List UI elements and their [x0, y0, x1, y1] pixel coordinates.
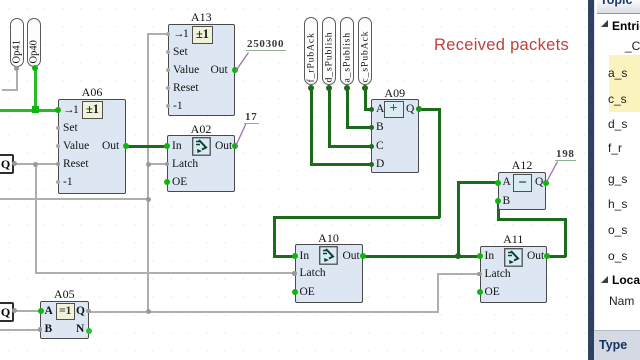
wire pill f_rPubAck to A09.D [310, 88, 313, 164]
wire A10.Out to A11.In [362, 255, 480, 258]
function block A06 (counter) [58, 85, 126, 100]
dark green dot below pill c_sPubAck [362, 85, 368, 91]
tree item f_r [608, 141, 622, 155]
green dot A02.In [164, 143, 170, 149]
wire pill d_sPublish to A09.C [328, 88, 331, 146]
grey dot below Op41 [14, 66, 19, 71]
pin N of A05 [76, 324, 84, 336]
wire A05.Q right, up at x=437, into A11.Latch [88, 311, 438, 313]
plus icon of A09 [384, 101, 404, 119]
junction dot dark green A10.Out net [455, 253, 462, 260]
grey dot A10.Latch [292, 271, 297, 276]
pin Latch of A10 [300, 268, 326, 280]
function block A11 (latch) [480, 232, 548, 247]
green dot A11.In [477, 253, 483, 259]
wire A09.Q routed right, down, left, down into A10.In [418, 108, 440, 111]
tree item _C [625, 39, 640, 53]
green junction square on bus [32, 106, 39, 113]
green dot A13.Out [232, 67, 238, 73]
tree item c_s [608, 92, 627, 106]
green dot A12.Q [543, 180, 549, 186]
pin -1 of A13 [173, 101, 183, 113]
wire net from A05.Q up via x=148: into A13 +1 and A02.Latch [148, 33, 168, 35]
grey dot A06.Reset [56, 162, 60, 166]
junction dot A06.Reset net [33, 162, 38, 167]
icon plus/minus 1 of A06 [82, 101, 103, 119]
pin Out of A11 [527, 251, 544, 263]
connector pill Op40 [27, 18, 41, 67]
latch icon of A10 [319, 246, 338, 265]
wire A06.Out to A02.In [126, 145, 167, 148]
function block A12 (subtract) [498, 158, 546, 173]
junction dot x148 y311 [146, 309, 151, 314]
annotation Received packets [434, 36, 569, 55]
connector pill Op41 [10, 18, 24, 67]
pin C of A09 [376, 141, 384, 153]
pin Set of A06 [63, 123, 78, 135]
pin Out of A13 [211, 65, 228, 77]
window splitter navy strip [588, 0, 594, 360]
green dot A02.OE [164, 179, 170, 185]
grey unconnected pin dots of A13 [166, 32, 170, 36]
wire branch up from junction to A12.A [457, 182, 460, 258]
connector pill a_sPublish [340, 17, 355, 85]
pin Reset of A13 [173, 83, 199, 95]
dark green dot below pill d_sPublish [326, 85, 332, 91]
wire connector Q (bottom) to A05.A [14, 310, 40, 312]
junction dot x148 Latch [146, 162, 151, 167]
xor =1 icon of A05 [56, 303, 76, 320]
green dot A10.OE [292, 289, 298, 295]
pin Set of A13 [173, 47, 188, 59]
wire left edge to A05.B [0, 329, 40, 331]
pin 1 of A13 [173, 29, 189, 41]
wire long horizontal from left edge at y=199 to x=148 vertical [0, 198, 149, 200]
wire pill c_sPubAck to A09.A [364, 88, 367, 109]
tree item o_s [608, 223, 627, 237]
function block A02 (latch) [167, 122, 235, 137]
pin A of A12 [503, 177, 511, 189]
pin OE of A02 [172, 177, 187, 189]
grey dot A11.Latch [477, 272, 482, 277]
pin OE of A10 [300, 287, 315, 299]
connector pill c_sPubAck [358, 17, 373, 85]
tree item a_s [608, 66, 627, 80]
grey dot A05.Q [86, 309, 91, 314]
pin D of A09 [376, 159, 384, 171]
pin B of A05 [45, 324, 53, 336]
green dot below Op40 [32, 65, 38, 71]
pin Out of A02 [215, 141, 232, 153]
dark green dot below pill f_rPubAck [308, 85, 314, 91]
pin OE of A11 [485, 287, 500, 299]
pin In of A10 [300, 251, 310, 263]
pin Value of A06 [63, 141, 89, 153]
green dot A10.In [292, 253, 298, 259]
pin Out of A06 [102, 141, 119, 153]
pin B of A09 [376, 122, 384, 134]
pin Latch of A02 [172, 159, 198, 171]
panel column header Topic (clipped at top) [597, 0, 640, 14]
pin Q of A09 [406, 104, 414, 116]
icon plus/minus 1 of A13 [192, 26, 213, 44]
dark green input dots of A09 [369, 107, 374, 112]
wire bright green bus from left edge to A06 +1 [0, 109, 58, 112]
function block A10 (latch) [295, 231, 363, 246]
connector pill d_sPublish [322, 17, 337, 85]
green dot A02.Out [232, 143, 238, 149]
connector pill f_rPubAck [304, 17, 319, 85]
pin 1 of A06 [63, 105, 79, 117]
grey dot A02.Latch [165, 162, 170, 167]
panel section header Type [594, 330, 640, 360]
junction dot x148 y199 [146, 197, 151, 202]
watch value 17 at A02.Out [244, 111, 259, 124]
pin In of A02 [172, 141, 182, 153]
pin In of A11 [485, 251, 495, 263]
watch value 250300 at A13.Out [246, 38, 286, 51]
wire connector Q (top) to A06.Reset [14, 163, 59, 165]
tree group Entries [601, 20, 608, 27]
tree item Name [609, 294, 634, 308]
minus icon of A12 [513, 174, 532, 192]
green dot A06.+1 [55, 107, 61, 113]
dark green dot below pill a_sPublish [344, 85, 350, 91]
pin -1 of A06 [63, 177, 73, 189]
watch value 198 at A12.Q [555, 148, 577, 161]
pin A of A05 [45, 306, 53, 318]
grey dot at Q box output [12, 161, 17, 166]
grey dot A05.B [38, 327, 43, 332]
wire Op40 TRUE (bright green) down to bus [34, 68, 37, 111]
green dot A12.B [495, 198, 501, 204]
function block A09 (adder) [371, 86, 419, 101]
yellow highlight over selected entries [609, 55, 640, 112]
pin Q of A05 [76, 306, 85, 318]
green dot A09.Q [416, 106, 422, 112]
pin Out of A10 [343, 251, 360, 263]
tree item d_s [608, 117, 627, 131]
grey dot at bottom Q box output [12, 308, 17, 313]
wire A11.Out to A12.B (right, up, left, up) [547, 255, 566, 258]
tree item g_s [608, 172, 627, 186]
green dot A06.Out [123, 143, 129, 149]
pin Value of A13 [173, 65, 199, 77]
wire pill a_sPublish to A09.B [346, 88, 349, 126]
connector end-box Q (bottom left) [0, 302, 14, 322]
pin B of A12 [503, 196, 511, 208]
wire junction at x=35 down to A10.Latch row [35, 164, 37, 273]
green dot A10.Out [360, 253, 366, 259]
pin Reset of A06 [63, 159, 89, 171]
pin Q of A12 [535, 177, 543, 189]
tree item o_s [608, 249, 627, 263]
function block A13 (counter) [168, 10, 235, 25]
connector end-box Q (top left) [0, 154, 14, 174]
wire Op41 output (grey, down then left to canvas edge) [16, 68, 18, 91]
green dot A11.Out [544, 253, 550, 259]
tree group Locals [601, 276, 608, 283]
pin Latch of A11 [485, 269, 511, 281]
latch icon of A11 [504, 248, 523, 267]
green dot A12.A [495, 180, 501, 186]
green dot A05.A [38, 308, 44, 314]
tree item h_s [608, 197, 627, 211]
function block A05 (xor) [40, 287, 89, 302]
green dot A05.N [86, 328, 92, 334]
pin A of A09 [376, 104, 384, 116]
right panel background [594, 0, 640, 360]
grey unconnected pin dots of A06 [56, 126, 60, 130]
latch icon of A02 [192, 137, 211, 156]
green dot A11.OE [477, 289, 483, 295]
